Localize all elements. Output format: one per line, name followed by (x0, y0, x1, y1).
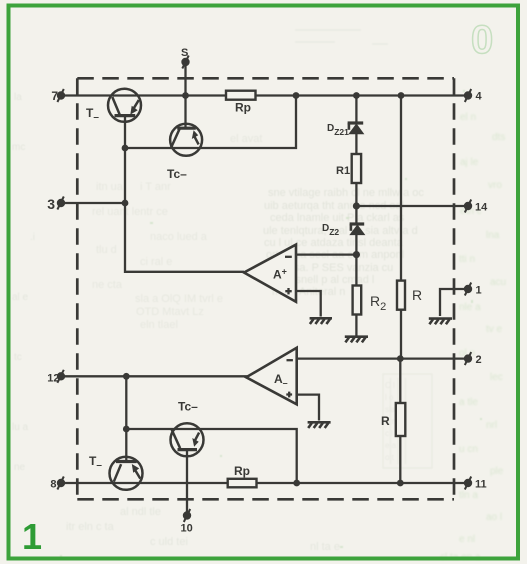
svg-text:0: 0 (471, 18, 493, 62)
svg-text:Rp: Rp (234, 464, 250, 478)
svg-text:eln tlael: eln tlael (140, 319, 178, 331)
svg-text:C l: C l (385, 381, 395, 390)
svg-text:Rp: Rp (235, 101, 251, 115)
svg-text:Tc–: Tc– (178, 400, 198, 414)
svg-text:R: R (412, 287, 422, 303)
svg-text:sla: sla (385, 405, 396, 414)
svg-text:l o: l o (385, 393, 394, 402)
svg-text:rel uant lentr ce: rel uant lentr ce (92, 206, 168, 218)
svg-text:2: 2 (476, 354, 482, 366)
svg-text:o t: o t (385, 453, 395, 462)
svg-text:tv e: tv e (486, 324, 503, 335)
svg-text:12: 12 (47, 373, 59, 385)
svg-text:ci ral e: ci ral e (140, 256, 172, 268)
svg-text:ule tenlqtura; mal va sia altv: ule tenlqtura; mal va sia altv a d (263, 225, 418, 237)
svg-text:tc: tc (14, 352, 22, 363)
svg-text:Tc–: Tc– (167, 167, 187, 181)
svg-text:tln a: tln a (459, 490, 478, 501)
svg-text:el avat: el avat (230, 133, 262, 145)
svg-text:itr eln c ta: itr eln c ta (66, 521, 115, 533)
svg-text:tlu d: tlu d (96, 244, 117, 256)
svg-text:lu a: lu a (12, 422, 29, 433)
svg-text:R: R (381, 414, 390, 428)
svg-text:10: 10 (181, 523, 193, 535)
svg-text:.i: .i (30, 232, 35, 243)
svg-text:u cn: u cn (459, 444, 478, 455)
svg-text:4: 4 (476, 91, 483, 103)
svg-text:3: 3 (47, 196, 55, 212)
svg-text:dts: dts (492, 132, 505, 143)
svg-text:a tle: a tle (459, 397, 478, 408)
svg-text:e nl: e nl (459, 534, 475, 545)
svg-text:vro: vro (488, 180, 502, 191)
svg-text:c l: c l (385, 429, 393, 438)
svg-text:S: S (181, 47, 188, 59)
svg-text:ne: ne (14, 462, 26, 473)
svg-text:al e: al e (12, 292, 29, 303)
svg-text:nrl: nrl (486, 420, 497, 431)
svg-text:ple: ple (490, 466, 504, 477)
svg-text:ceda lnamle uit P a ckarl as: ceda lnamle uit P a ckarl as (270, 212, 405, 224)
svg-text:ne cta: ne cta (92, 279, 123, 291)
svg-text:itn ua: itn ua (96, 181, 124, 193)
svg-text:1: 1 (22, 516, 42, 557)
svg-text:nle a: nle a (459, 302, 481, 313)
svg-text:cu l ul ce atdaza tinsl deanta: cu l ul ce atdaza tinsl deanta (264, 237, 404, 249)
svg-text:tti n: tti n (459, 254, 475, 265)
svg-text:e a: e a (385, 441, 397, 450)
svg-text:acu: acu (490, 277, 506, 288)
svg-text:c uld tei: c uld tei (150, 536, 188, 548)
svg-text:lna: lna (486, 230, 500, 241)
svg-text:R1: R1 (336, 165, 350, 177)
svg-text:aj le: aj le (460, 157, 479, 168)
svg-text:sla a OlQ IM tvrl e: sla a OlQ IM tvrl e (135, 293, 223, 305)
svg-text:nl ta e: nl ta e (310, 541, 340, 553)
svg-text:i T anr: i T anr (140, 181, 171, 193)
svg-text:el n: el n (460, 112, 476, 123)
svg-text:7: 7 (51, 89, 58, 103)
svg-text:11: 11 (475, 479, 487, 491)
svg-text:14: 14 (475, 202, 488, 214)
svg-text:8: 8 (50, 479, 56, 491)
svg-text:al ndl tle: al ndl tle (120, 506, 161, 518)
svg-text:la: la (14, 92, 22, 103)
svg-text:mc: mc (12, 142, 25, 153)
svg-text:lec: lec (490, 372, 503, 383)
svg-text:OTD Mtavt Lz: OTD Mtavt Lz (136, 306, 204, 318)
svg-text:1: 1 (476, 285, 482, 297)
svg-text:ao l: ao l (486, 512, 502, 523)
svg-text:naco lued a: naco lued a (150, 231, 208, 243)
